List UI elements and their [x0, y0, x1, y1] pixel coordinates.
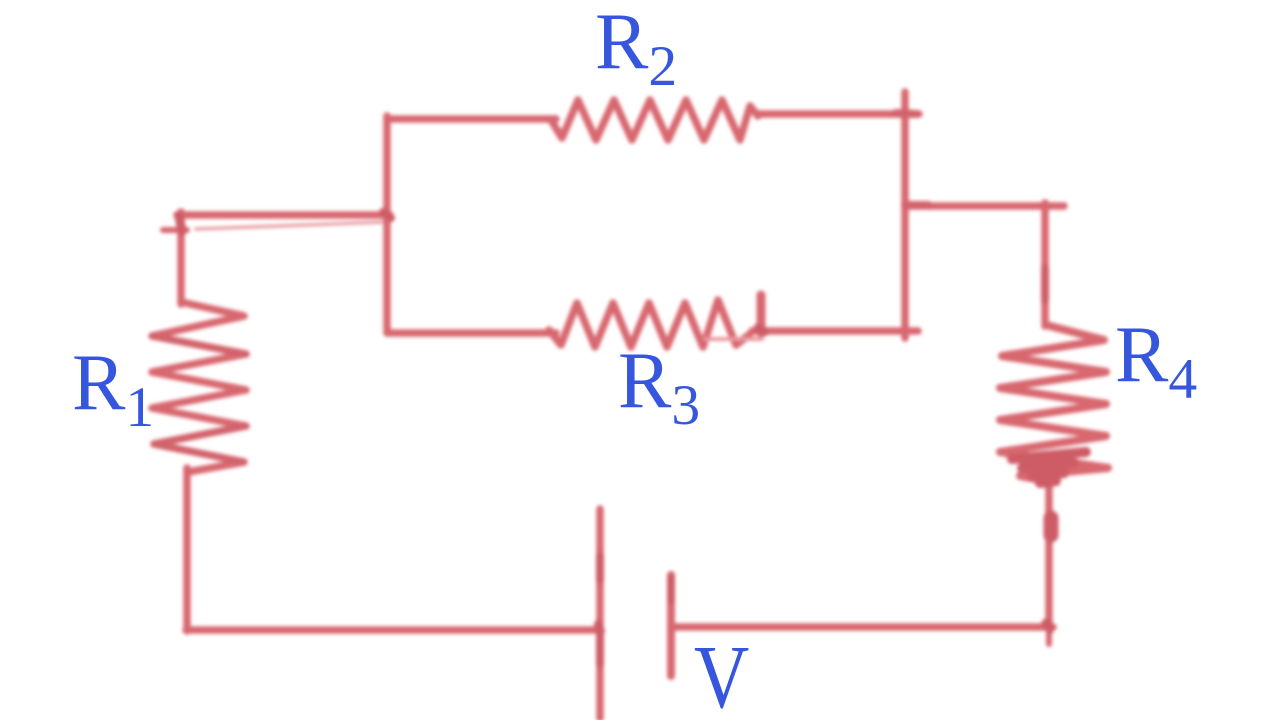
resistor R2 zigzag [551, 100, 758, 140]
resistor R4 top lead [1041, 203, 1049, 326]
wire left vertical [383, 116, 391, 333]
wire bottom-right horizontal [672, 623, 1053, 631]
battery V long plate overdraw [596, 556, 604, 664]
resistor R3 right wire overdraw [705, 337, 762, 341]
label R1 [72, 343, 154, 437]
resistor R4 bottom lead tail below corner [1046, 628, 1052, 644]
R1 zigzag overdraw [152, 336, 246, 462]
wire top-left horizontal (node A to node B) [177, 211, 390, 219]
wire corner tick at node A [163, 227, 187, 233]
wire R2 right horizontal [757, 110, 919, 118]
wire middle-right horizontal [905, 202, 1064, 210]
battery short plate top overdraw [667, 578, 675, 600]
wire R3 right horizontal [752, 327, 918, 335]
junction R3-right crossing overdraw [758, 328, 764, 332]
resistor R4 bottom lead [1045, 479, 1053, 629]
resistor R1 zigzag [152, 302, 246, 472]
resistor R1 bottom lead [183, 468, 191, 631]
resistor R4 bottom overdraw blob [1012, 452, 1086, 483]
label R3 [618, 341, 700, 435]
label V [694, 633, 749, 723]
wire right vertical [901, 92, 909, 338]
battery V long plate [596, 509, 604, 718]
resistor R1 top lead [177, 212, 185, 304]
resistor R3 zigzag [549, 300, 750, 347]
resistor R3 right end bar [757, 295, 766, 333]
wire faint retrace under top-left horizontal [196, 222, 384, 229]
battery V short plate [667, 575, 675, 676]
junction middle-right overdraw [905, 201, 928, 209]
junction node B overdraw [383, 212, 391, 218]
junction right-top crossing overdraw [896, 113, 916, 114]
label R2 [595, 2, 677, 96]
wire R2 left horizontal [388, 115, 556, 123]
resistor R4 zigzag [1000, 325, 1108, 481]
label R4 [1115, 315, 1197, 409]
junction R4-bottom corner overdraw [1046, 623, 1050, 629]
junction battery-left crossing overdraw [598, 624, 601, 631]
junction node A overdraw [179, 216, 182, 231]
wire bottom-left horizontal [186, 626, 599, 634]
resistor R4 top lead overdraw [1041, 268, 1049, 300]
wire R3 left horizontal [388, 329, 556, 337]
resistor R4 bottom lead overdraw [1044, 518, 1059, 535]
